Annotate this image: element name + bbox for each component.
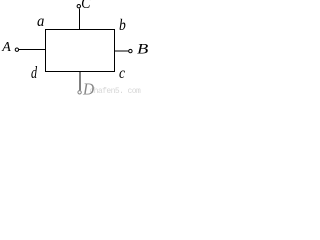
black box body abcd (46, 30, 115, 72)
terminal circle C (77, 5, 80, 8)
wire from terminal C down to top side of box (78, 8, 80, 29)
wire from bottom side of box down to terminal D (79, 72, 81, 91)
wire from right side of box to terminal B (115, 50, 129, 52)
terminal circle A (15, 48, 18, 51)
corner node c (119, 66, 125, 82)
node label D (83, 82, 94, 99)
watermark chafen5.com (89, 88, 140, 96)
node label A (2, 41, 11, 55)
terminal circle D (78, 91, 81, 94)
wire from terminal A to left side of box (19, 49, 46, 51)
node label C (81, 0, 90, 13)
terminal circle B (129, 49, 132, 52)
corner node a (37, 14, 44, 30)
corner node d (31, 65, 37, 82)
corner node b (119, 18, 126, 34)
node label B (137, 43, 148, 57)
